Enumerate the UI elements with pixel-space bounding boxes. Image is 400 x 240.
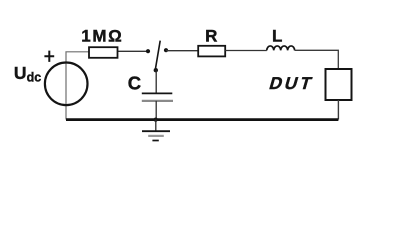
- ground symbol stem: [155, 120, 157, 132]
- svg-text:C: C: [128, 72, 141, 93]
- capacitor C top plate: [142, 92, 173, 94]
- DUT box: [326, 69, 352, 100]
- svg-text:DUT: DUT: [267, 73, 317, 93]
- voltage source U_dc circle: [45, 63, 88, 106]
- svg-text:1MΩ: 1MΩ: [81, 26, 123, 45]
- wire switch common down to capacitor C: [155, 70, 157, 93]
- resistor 1M ohm body: [89, 47, 118, 58]
- svg-text:R: R: [205, 26, 217, 45]
- wire 1M resistor right to switch left contact: [118, 50, 149, 52]
- ground symbol bar 3: [152, 140, 158, 142]
- junction dot at ground node: [154, 118, 158, 122]
- wire resistor R to inductor L: [225, 50, 267, 52]
- svg-text:dc: dc: [27, 71, 42, 85]
- wire switch right contact to resistor R: [166, 50, 198, 52]
- wire inductor L to top-right corner and down to DUT: [295, 50, 339, 69]
- svg-text:U: U: [14, 63, 27, 83]
- wire DUT bottom down to ground rail: [337, 100, 339, 120]
- switch S left contact dot: [146, 49, 150, 53]
- polarity plus sign: [44, 51, 54, 62]
- svg-text:L: L: [272, 26, 282, 45]
- ground symbol bar 2 (gray): [148, 135, 164, 137]
- resistor R body: [198, 46, 225, 57]
- ground symbol bar 1: [142, 130, 170, 132]
- switch S lever: [155, 41, 160, 71]
- inductor L coil: [267, 46, 295, 50]
- wire capacitor bottom to ground rail: [155, 101, 157, 120]
- ground rail (thick bottom wire): [66, 118, 338, 121]
- wire top-left corner from source to 1M resistor: [66, 52, 89, 120]
- capacitor C bottom plate (gray): [142, 100, 173, 102]
- switch S right contact dot: [164, 48, 168, 52]
- switch S common bottom dot: [154, 68, 158, 72]
